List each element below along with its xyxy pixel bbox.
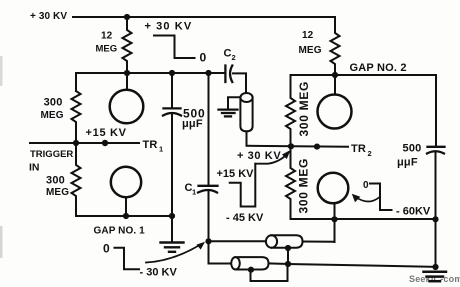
svg-text:0: 0 bbox=[363, 180, 369, 191]
wire: bottom bus to ground bbox=[288, 264, 436, 267]
svg-text:12: 12 bbox=[302, 30, 314, 41]
svg-text:C: C bbox=[224, 48, 232, 60]
capacitor C1 bbox=[208, 73, 210, 185]
wire: gap1 box top line bbox=[76, 72, 224, 74]
node right branch / bus bbox=[432, 216, 438, 222]
svg-text:+ 30 KV: + 30 KV bbox=[30, 11, 67, 22]
svg-text:MEG: MEG bbox=[41, 110, 64, 121]
wire: +30KV top rail bbox=[73, 17, 335, 31]
arrow -30KV step to C1 node bbox=[146, 245, 201, 263]
svg-text:GAP NO. 2: GAP NO. 2 bbox=[350, 62, 407, 74]
node R2/box bbox=[332, 72, 338, 78]
spark gap G1 upper ball bbox=[126, 73, 128, 90]
label +30 KV mid bbox=[237, 150, 281, 162]
svg-text:2: 2 bbox=[232, 53, 236, 62]
wire: trigger input line TR1 bbox=[30, 142, 139, 144]
spark gap G2 lower ball bbox=[318, 173, 349, 204]
spark gap G1 lower ball bbox=[111, 167, 141, 197]
resistor 300 MEG lower left bbox=[72, 143, 81, 216]
spark gap G2 upper ball bbox=[334, 75, 336, 95]
svg-text:- 60KV: - 60KV bbox=[396, 206, 431, 218]
label +30 KV supply bbox=[30, 11, 67, 22]
svg-text:+ 30 KV: + 30 KV bbox=[237, 150, 281, 162]
wire: gap2 box top bbox=[291, 74, 437, 76]
label TR1 bbox=[143, 139, 164, 154]
svg-text:300 MEG: 300 MEG bbox=[297, 81, 311, 137]
ground bottom right bbox=[424, 271, 447, 274]
node trigger line / left vertical bbox=[73, 140, 79, 146]
svg-text:GAP NO. 1: GAP NO. 1 bbox=[94, 226, 146, 237]
node TR1 bbox=[102, 140, 108, 146]
waveform 0 step to -60KV bbox=[370, 184, 392, 211]
arrow +15KV step to junction bbox=[255, 153, 288, 164]
node top rail / R1 bbox=[124, 14, 130, 20]
capacitor 500uuF right bbox=[435, 75, 437, 146]
node cap500/box bbox=[169, 70, 175, 76]
svg-text:- 45 KV: - 45 KV bbox=[226, 212, 264, 224]
svg-text:MEG: MEG bbox=[96, 44, 118, 55]
arrow -60KV step to gap2 lower ball bbox=[355, 197, 379, 202]
label TR2 bbox=[351, 143, 372, 158]
node ground junction bbox=[432, 264, 438, 270]
label GAP NO. 2 bbox=[350, 62, 407, 74]
trigger cable (vertical cylinder) bbox=[240, 93, 252, 102]
node DL1 sheath bbox=[285, 245, 291, 251]
svg-text:12: 12 bbox=[101, 31, 113, 42]
resistor R2 12 MEG right bbox=[331, 31, 340, 75]
svg-text:2: 2 bbox=[368, 149, 372, 158]
wire: DL2 sheath loop bbox=[251, 264, 288, 281]
node resistors junction bbox=[288, 143, 294, 149]
waveform 0 step to -30KV bbox=[115, 248, 140, 270]
svg-text:μμF: μμF bbox=[182, 118, 203, 130]
label GAP NO. 1 bbox=[94, 226, 146, 237]
svg-text:+15 KV: +15 KV bbox=[86, 127, 127, 139]
scan noise left edge bbox=[0, 56, 3, 86]
svg-text:1: 1 bbox=[192, 188, 196, 197]
resistor 300 MEG gap2 lower bbox=[286, 146, 295, 219]
ground under gap1 box bbox=[171, 216, 173, 242]
svg-text:0: 0 bbox=[103, 242, 110, 256]
ground at trigger cable bbox=[228, 97, 240, 108]
svg-text:IN: IN bbox=[29, 161, 40, 173]
wire: gap1 box left vertical bbox=[75, 73, 77, 91]
node C1 / cable1 junction bbox=[205, 238, 211, 244]
node R1/box bbox=[124, 70, 130, 76]
node DL2 sheath bbox=[248, 267, 254, 273]
capacitor 500uuF left bbox=[171, 73, 173, 107]
svg-text:TR: TR bbox=[351, 143, 366, 155]
capacitor C2 bbox=[224, 66, 226, 83]
resistor 300 MEG gap2 upper bbox=[286, 75, 295, 146]
svg-text:+15 KV: +15 KV bbox=[217, 168, 255, 180]
svg-text:MEG: MEG bbox=[299, 45, 322, 56]
svg-text:MEG: MEG bbox=[46, 187, 69, 198]
svg-text:TR: TR bbox=[143, 139, 158, 151]
svg-text:300: 300 bbox=[46, 175, 65, 187]
svg-text:500: 500 bbox=[403, 143, 422, 155]
node C1/box bbox=[205, 70, 211, 76]
svg-text:0: 0 bbox=[200, 51, 207, 65]
waveform +30KV step to 0 bbox=[154, 36, 195, 59]
svg-text:μμF: μμF bbox=[397, 157, 418, 169]
wire: TR2 node line bbox=[247, 146, 349, 147]
node TR2 bbox=[314, 144, 320, 150]
delay cable DL2 lower bbox=[209, 263, 231, 265]
svg-text:300: 300 bbox=[44, 97, 63, 109]
node ball lead / bus bbox=[331, 216, 337, 222]
wire: gap1 box bottom bbox=[76, 215, 172, 217]
node bus2 junction bbox=[285, 261, 291, 267]
svg-text:TRIGGER: TRIGGER bbox=[30, 149, 73, 160]
resistor R1 12 MEG left bbox=[123, 17, 132, 73]
delay cable DL1 upper bbox=[209, 240, 266, 242]
wire: lower bus y219 bbox=[291, 218, 436, 220]
svg-text:+ 30 KV: + 30 KV bbox=[145, 21, 193, 33]
svg-text:300 MEG: 300 MEG bbox=[297, 158, 311, 214]
node cap500/bottom bbox=[169, 213, 175, 219]
node ball/bottom bbox=[123, 213, 129, 219]
label +15KV bbox=[86, 127, 127, 139]
resistor 300 MEG upper left bbox=[72, 91, 81, 143]
svg-text:- 30 KV: - 30 KV bbox=[140, 267, 178, 279]
waveform +15KV step to -45KV bbox=[230, 164, 256, 207]
svg-text:1: 1 bbox=[159, 145, 163, 154]
